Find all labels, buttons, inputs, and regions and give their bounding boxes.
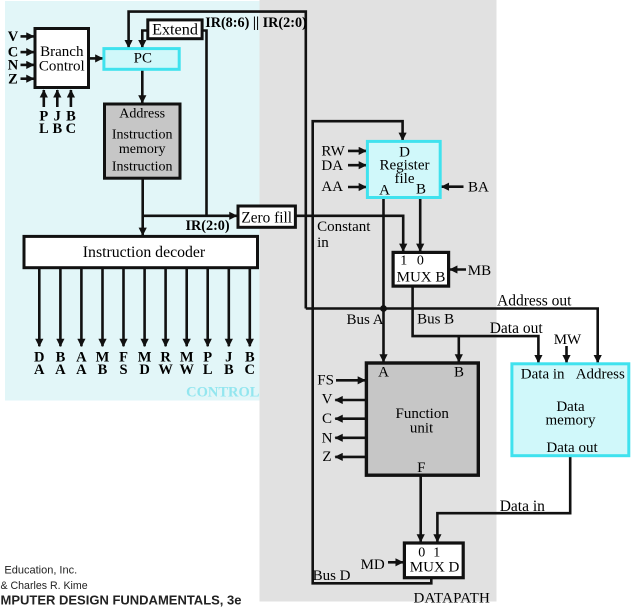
wire Address out [306, 309, 598, 363]
svg-text:PC: PC [134, 51, 152, 67]
wire Bus D from MUX D to Register file D input [313, 121, 432, 583]
decoder output labels row 1 [34, 350, 255, 366]
wire Branch Control to PC [89, 57, 103, 60]
wire instruction memory to decoder [141, 178, 144, 235]
block Data memory [512, 364, 629, 456]
svg-text:A: A [76, 362, 87, 378]
block MUX D [404, 543, 463, 578]
svg-text:BA: BA [468, 180, 489, 196]
svg-text:B: B [454, 365, 464, 381]
svg-text:V: V [8, 29, 19, 45]
svg-text:Z: Z [322, 449, 331, 465]
decoder output arrows [39, 268, 250, 346]
block Instruction decoder [24, 236, 258, 267]
datapath region background [260, 0, 497, 602]
svg-text:MPUTER DESIGN FUNDAMENTALS, 3e: MPUTER DESIGN FUNDAMENTALS, 3e [1, 592, 242, 607]
block Zero fill [238, 206, 295, 227]
wire MW input [565, 346, 568, 363]
svg-text:Z: Z [8, 71, 18, 87]
svg-text:DATAPATH: DATAPATH [414, 590, 491, 606]
svg-text:MUX B: MUX B [397, 270, 446, 286]
svg-text:W: W [158, 362, 173, 378]
block MUX B [393, 252, 449, 286]
wire Extend input from IR line [202, 31, 206, 216]
svg-text:A: A [378, 365, 389, 381]
wire IR(2:0) to Zero fill [143, 215, 237, 218]
svg-text:A: A [34, 362, 45, 378]
wire B input [70, 90, 73, 107]
svg-text:0: 0 [417, 254, 424, 269]
svg-text:Data out: Data out [490, 320, 544, 337]
svg-text:CONTROL: CONTROL [186, 385, 260, 401]
wire Bus A from Register file A to Function unit [382, 198, 385, 362]
svg-text:C: C [245, 362, 255, 378]
wire C output [335, 417, 366, 420]
block Branch Control [35, 29, 89, 88]
svg-text:B: B [52, 121, 62, 137]
block Register file [367, 141, 440, 197]
svg-text:C: C [322, 411, 332, 427]
decoder output labels row 2 [34, 362, 255, 378]
svg-text:Instruction: Instruction [112, 127, 173, 142]
svg-text:A: A [55, 362, 66, 378]
svg-text:S: S [119, 362, 127, 378]
svg-text:Address: Address [576, 367, 625, 383]
svg-text:V: V [322, 392, 333, 408]
wire C input [21, 51, 34, 54]
svg-text:C: C [66, 121, 76, 137]
svg-text:MB: MB [468, 263, 491, 279]
svg-text:N: N [322, 430, 333, 446]
svg-text:MD: MD [361, 557, 385, 573]
wire PC to instruction memory [141, 69, 144, 103]
wire FS input [336, 379, 365, 382]
svg-text:memory: memory [546, 413, 596, 429]
svg-text:F: F [417, 460, 425, 476]
svg-text:Function: Function [396, 406, 450, 422]
svg-text:memory: memory [119, 142, 166, 157]
wire Z input [21, 77, 34, 80]
block instruction memory [105, 104, 181, 178]
wire AA input [348, 186, 366, 189]
svg-text:Bus A: Bus A [347, 312, 384, 328]
svg-text:1: 1 [400, 254, 407, 269]
block Extend [148, 20, 202, 39]
wire BA input [442, 185, 464, 188]
svg-text:1: 1 [433, 546, 440, 561]
wire top loop Bus A to PC [129, 12, 306, 309]
svg-text:Bus D: Bus D [313, 568, 351, 584]
wire V output [335, 399, 366, 402]
block Function unit [366, 363, 478, 475]
block PC [104, 49, 179, 70]
svg-text:Data in: Data in [521, 367, 565, 383]
svg-text:MW: MW [554, 332, 582, 348]
svg-text:L: L [39, 121, 49, 137]
wire P input [42, 90, 45, 107]
svg-text:B: B [98, 362, 108, 378]
svg-text:Education, Inc.: Education, Inc. [4, 565, 77, 577]
wire DA input [348, 164, 366, 167]
svg-text:DA: DA [321, 158, 343, 174]
svg-text:AA: AA [321, 179, 343, 195]
wire V input [21, 35, 34, 38]
wire RW input [348, 150, 366, 153]
wire Register file B to MUX B input 0 [419, 198, 422, 252]
wire N output [335, 436, 366, 439]
svg-text:in: in [317, 235, 329, 251]
svg-text:Data out: Data out [546, 440, 598, 456]
svg-text:IR(8:6) || IR(2:0): IR(8:6) || IR(2:0) [205, 15, 307, 31]
wire Bus B tap to Function unit B [457, 336, 460, 362]
svg-text:B: B [224, 362, 234, 378]
svg-text:D: D [139, 362, 149, 378]
svg-text:B: B [416, 182, 426, 198]
svg-text:Instruction: Instruction [112, 160, 173, 175]
wire J input [56, 90, 59, 107]
wire Zero fill to MUX B input 1 (Constant in) [295, 216, 403, 251]
svg-text:Instruction decoder: Instruction decoder [83, 244, 206, 261]
wire Data memory Data out to MUX D input 1 [437, 456, 570, 542]
svg-text:Control: Control [39, 59, 85, 75]
svg-text:0: 0 [418, 546, 425, 561]
svg-text:file: file [395, 171, 415, 187]
svg-text:& Charles R. Kime: & Charles R. Kime [1, 580, 88, 592]
svg-text:Branch: Branch [40, 44, 84, 60]
svg-text:unit: unit [410, 421, 434, 437]
svg-text:Data in: Data in [500, 498, 545, 515]
wire N input [21, 64, 34, 67]
wire F output to MUX D input 0 [419, 475, 422, 542]
junction dot Bus A / Address out [380, 305, 387, 312]
svg-text:MUX D: MUX D [410, 560, 460, 576]
wire MB input [450, 268, 466, 271]
svg-text:Address out: Address out [497, 293, 572, 310]
wire Bus B from MUX B to Data memory Data in [413, 286, 539, 362]
svg-text:W: W [179, 362, 194, 378]
wire MD input [388, 561, 403, 564]
wire Extend output to PC [142, 31, 148, 48]
control region background [5, 1, 260, 401]
svg-text:Extend: Extend [152, 20, 198, 38]
svg-text:A: A [379, 183, 390, 199]
svg-text:Bus B: Bus B [417, 312, 454, 328]
svg-text:Address: Address [119, 107, 165, 122]
wire Z output [335, 456, 366, 459]
svg-text:Zero fill: Zero fill [241, 209, 292, 226]
svg-text:IR(2:0): IR(2:0) [186, 218, 230, 234]
svg-text:FS: FS [317, 373, 334, 389]
svg-text:L: L [203, 362, 213, 378]
svg-text:Constant: Constant [317, 219, 371, 235]
